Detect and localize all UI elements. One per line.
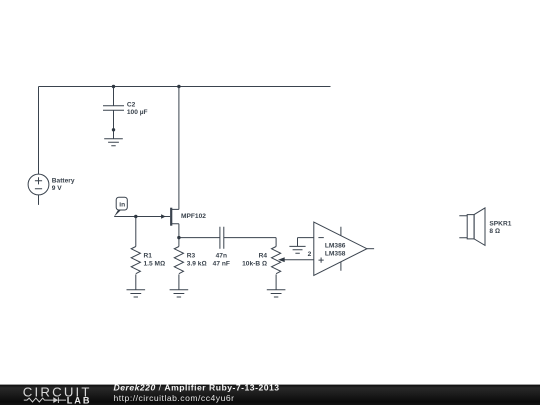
svg-text:SPKR1: SPKR1 [489, 220, 511, 227]
wire R1 bottom lead [135, 274, 137, 289]
svg-text:Derek220 / Amplifier Ruby-7-13: Derek220 / Amplifier Ruby-7-13-2013 [114, 383, 280, 393]
capacitor C2 [103, 106, 124, 111]
node dot top rail / drain [177, 85, 180, 88]
wire R4 bottom lead [275, 274, 277, 289]
wire wiper to op-amp + [285, 259, 314, 261]
svg-text:C2: C2 [127, 101, 136, 108]
svg-text:LM386: LM386 [325, 243, 346, 250]
node dot top rail / C2 [112, 85, 115, 88]
wire drain drop [172, 87, 179, 210]
logo diode [53, 397, 58, 403]
ground below R1 [127, 290, 146, 297]
speaker SPKR1 body [467, 215, 474, 239]
svg-text:9 V: 9 V [52, 185, 62, 192]
op-amp power stubs [340, 227, 342, 271]
svg-text:3.9 kΩ: 3.9 kΩ [187, 261, 207, 268]
svg-text:in: in [119, 202, 125, 209]
speaker SPKR1 leads [459, 216, 467, 238]
node dot source / R3 [177, 236, 180, 239]
wire R3 bottom lead [178, 274, 180, 289]
R4 wiper arrow [278, 257, 285, 262]
wire battery bottom stub [38, 195, 40, 205]
wire R3 top lead [178, 238, 180, 247]
capacitor 47n (47 nF) [220, 227, 224, 249]
svg-text:LM358: LM358 [325, 250, 346, 257]
wire C2 top lead [113, 87, 115, 106]
wire op-amp output stub [367, 248, 374, 250]
ground below R4 [267, 290, 286, 297]
JFET gate arrow [161, 214, 166, 218]
battery V1 (Battery 9 V) [28, 174, 49, 195]
node dot C2-ground [112, 128, 115, 131]
ground below R3 [170, 290, 189, 297]
input flag tail [114, 210, 121, 217]
resistor R4 [272, 247, 281, 274]
node dot gate / R1 [134, 215, 137, 218]
input flag box [116, 197, 127, 210]
svg-text:2: 2 [308, 251, 312, 258]
wire gate lead [114, 216, 170, 218]
svg-text:100 µF: 100 µF [127, 109, 148, 116]
op-amp LM386/LM358 triangle [314, 222, 367, 276]
svg-text:R1: R1 [144, 253, 153, 260]
svg-text:47 nF: 47 nF [213, 261, 230, 268]
svg-text:8 Ω: 8 Ω [489, 228, 500, 235]
op-amp plus sign [319, 258, 324, 263]
wire top rail [39, 86, 331, 88]
svg-text:Battery: Battery [52, 178, 75, 185]
svg-text:1.5 MΩ: 1.5 MΩ [144, 261, 166, 268]
wire source lead [172, 224, 179, 238]
svg-text:R3: R3 [187, 253, 196, 260]
svg-text:10k-B Ω: 10k-B Ω [242, 261, 267, 268]
svg-text:47n: 47n [216, 253, 227, 260]
op-amp minus sign [318, 237, 323, 239]
svg-text:MPF102: MPF102 [181, 213, 206, 220]
logo resistor zigzag [24, 398, 54, 402]
resistor R1 [131, 247, 140, 274]
wire R1 top lead [135, 217, 137, 247]
svg-text:http://circuitlab.com/cc4yu6r: http://circuitlab.com/cc4yu6r [114, 393, 235, 403]
wire C2 bottom lead [113, 110, 115, 138]
ground below C2 [104, 139, 123, 146]
transistor MPF102 channel bar [170, 208, 172, 226]
svg-text:LAB: LAB [67, 396, 92, 405]
wire left drop to battery [38, 87, 40, 175]
svg-text:R4: R4 [259, 253, 268, 260]
ground at op-amp minus [289, 246, 305, 253]
wire minus input to ground [298, 238, 314, 247]
resistor R3 [174, 247, 183, 274]
wire C3 to R4 [224, 238, 276, 247]
wire source node to C3 [179, 237, 220, 239]
